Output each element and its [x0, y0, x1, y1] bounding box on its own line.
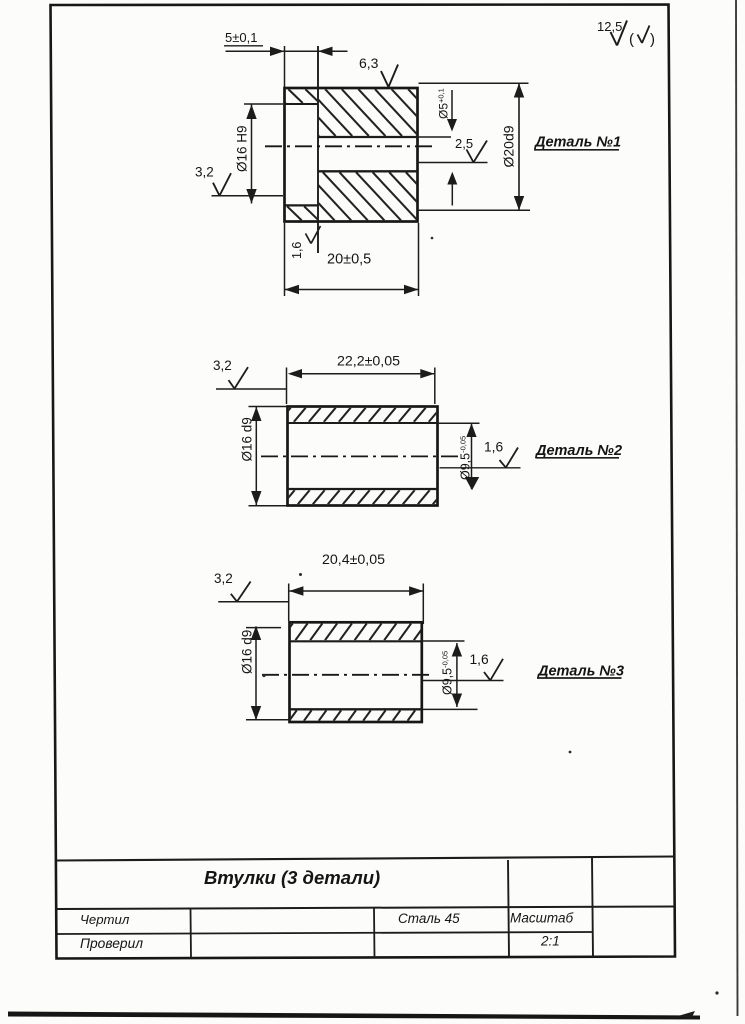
- dim Ø16d9 line (detail 3): [255, 627, 257, 720]
- roughness leader line 1,6 (detail 2): [440, 467, 521, 469]
- dim Ø20d9 line: [518, 83, 520, 210]
- svg-text:12,5: 12,5: [597, 19, 622, 34]
- detail 1 centerline: [265, 145, 436, 147]
- dim 22,2 left extension: [286, 368, 288, 405]
- roughness check 3,2 (detail 2): [229, 380, 235, 389]
- roughness leader line 3,2 (detail 2): [216, 388, 287, 390]
- dim Ø9,5 down arrow (detail 3): [452, 694, 462, 708]
- dim Ø16d9 top extension (detail 2): [249, 406, 287, 408]
- dim Ø16H9 top extension: [244, 103, 283, 105]
- detail 1 body outline (section): [285, 88, 418, 222]
- dim 20,4 left arrow: [289, 586, 303, 596]
- svg-text:20±0,5: 20±0,5: [327, 252, 371, 268]
- title block second horizontal line: [57, 907, 675, 910]
- scan artifact: arrow mark bottom right: [678, 1011, 695, 1019]
- svg-text:1,6: 1,6: [484, 440, 504, 455]
- dim Ø16d9 bottom extension (detail 3): [246, 719, 290, 721]
- label Деталь №3 underline: [537, 677, 622, 679]
- svg-text:Ø5+0,1: Ø5+0,1: [437, 88, 451, 119]
- svg-text:(: (: [629, 31, 634, 48]
- bore-bottom extension line (detail 1): [418, 162, 488, 164]
- svg-text:Деталь №3: Деталь №3: [536, 664, 624, 680]
- dim Ø16d9 up arrow (detail 2): [251, 407, 261, 421]
- title block vertical line x=190: [190, 909, 193, 959]
- detail 3 centerline: [262, 674, 433, 676]
- title block vertical line x=374: [373, 908, 376, 958]
- svg-text:1,6: 1,6: [290, 242, 304, 259]
- dim Ø16d9 line (detail 2): [255, 407, 257, 505]
- roughness leader line 1,6 (detail 3): [422, 680, 504, 682]
- svg-text:Ø16 d9: Ø16 d9: [240, 417, 255, 461]
- detail 1 bore bottom edge: [318, 170, 418, 172]
- dim Ø16H9 line: [251, 105, 253, 204]
- scan artifact: right page edge line: [736, 0, 738, 1016]
- title block vertical line x=592: [592, 858, 593, 958]
- dim Ø9,5 up arrow (detail 3): [452, 643, 462, 657]
- dim Ø9,5 line (detail 3): [456, 643, 458, 707]
- title block top line: [57, 857, 676, 861]
- scan speck near detail 1: [431, 237, 434, 240]
- dim Ø9,5 up arrow (detail 2): [466, 423, 476, 437]
- extension line part left edge up: [284, 46, 286, 87]
- detail 1 counterbore face / extension line x=318: [317, 46, 319, 253]
- dim Ø5 bore-top extension: [418, 136, 452, 138]
- detail 1 bore top edge: [318, 136, 418, 138]
- scan speck near detail 3 top: [299, 573, 302, 576]
- drawing sheet border frame: [51, 5, 676, 959]
- svg-text:Деталь №1: Деталь №1: [533, 135, 621, 151]
- detail 2 body outline (section): [288, 407, 438, 506]
- dim 20±0,5 right arrow: [404, 285, 419, 294]
- svg-text:Проверил: Проверил: [80, 936, 143, 951]
- dim Ø16d9 top extension (detail 3): [246, 627, 281, 629]
- svg-text:Ø16 d9: Ø16 d9: [240, 630, 255, 674]
- dim Ø9,5 top extension (detail 2): [438, 422, 480, 424]
- svg-text:3,2: 3,2: [195, 165, 214, 180]
- dim Ø5 upper leader line: [451, 90, 453, 120]
- roughness check on bore (detail 1): [467, 150, 474, 163]
- dim Ø5 down arrow: [447, 119, 457, 132]
- detail 2 centerline: [261, 455, 458, 457]
- svg-text:1,6: 1,6: [470, 652, 490, 667]
- dim Ø9,5 bottom extension (detail 3): [422, 708, 478, 710]
- dim 20,4 left extension: [288, 584, 290, 622]
- svg-text:3,2: 3,2: [213, 358, 232, 373]
- svg-text:): ): [650, 31, 655, 48]
- dim Ø20d9 top extension: [419, 82, 529, 84]
- dim Ø20d9 up arrow: [514, 83, 524, 97]
- dim 22,2 right arrow: [420, 369, 434, 378]
- label Деталь №2 underline: [536, 457, 620, 459]
- roughness check 3,2 (detail 1): [213, 183, 220, 196]
- dim 20±0,5 left extension: [284, 223, 286, 296]
- svg-text:Масштаб: Масштаб: [510, 911, 573, 926]
- dim Ø5 lower leader line: [451, 185, 453, 206]
- dim line 22,2±0,05: [290, 373, 434, 375]
- detail 2 bore top edge: [288, 422, 438, 424]
- svg-text:Ø9,5-0,05: Ø9,5-0,05: [441, 651, 455, 695]
- svg-text:2:1: 2:1: [540, 934, 560, 949]
- dim line 5±0,1: [226, 50, 348, 52]
- svg-text:Сталь 45: Сталь 45: [398, 911, 460, 926]
- detail 3 bore bottom edge: [290, 708, 422, 710]
- detail 3 body outline (section): [290, 622, 422, 722]
- scan artifact: bottom page edge thick line: [8, 1012, 700, 1020]
- dim 20±0,5 left arrow: [285, 285, 300, 294]
- scan speck dot near title block: [715, 991, 718, 994]
- label Деталь №1 underline: [534, 149, 619, 151]
- dim Ø16d9 up arrow (detail 3): [251, 626, 261, 640]
- dim 20,4 right extension: [422, 584, 424, 625]
- dim 5±0,1 right arrow: [318, 47, 333, 56]
- svg-text:Втулки (3 детали): Втулки (3 детали): [204, 867, 380, 888]
- svg-text:Ø16 H9: Ø16 H9: [235, 125, 250, 172]
- detail 1 counterbore top edge: [285, 103, 319, 105]
- dim Ø9,5 down arrow (detail 2): [465, 477, 479, 490]
- scan speck near detail 3 left dim: [262, 674, 265, 677]
- svg-text:Чертил: Чертил: [80, 912, 130, 927]
- dim Ø16H9 down arrow: [246, 189, 256, 204]
- roughness check 6,3: [381, 71, 389, 87]
- dim Ø16d9 down arrow (detail 3): [251, 706, 261, 720]
- dim 22,2 left arrow: [288, 369, 302, 378]
- general roughness check symbol: [611, 32, 618, 46]
- roughness check 1,6 (detail 1): [306, 234, 312, 244]
- dim Ø9,5 line (detail 2): [471, 423, 473, 489]
- svg-text:Ø20d9: Ø20d9: [501, 125, 517, 167]
- svg-text:Ø9,5-0,05: Ø9,5-0,05: [459, 436, 473, 480]
- svg-text:5±0,1: 5±0,1: [225, 30, 257, 45]
- dim 20,4 right arrow: [409, 586, 423, 596]
- scan speck below detail 3: [569, 751, 572, 754]
- dim Ø16d9 down arrow (detail 2): [251, 491, 261, 505]
- dim 20±0,5 right extension: [418, 223, 420, 296]
- svg-text:Деталь №2: Деталь №2: [534, 443, 622, 459]
- dim line 20,4±0,05: [290, 590, 424, 592]
- title block vertical line x=508: [508, 860, 509, 958]
- svg-text:20,4±0,05: 20,4±0,05: [322, 552, 385, 568]
- detail 2 bore bottom edge: [288, 488, 438, 490]
- dim Ø20d9 bottom extension: [418, 209, 531, 211]
- detail 1 counterbore bottom edge: [285, 204, 319, 206]
- detail 3 bore top edge: [290, 640, 422, 642]
- dim Ø16d9 bottom extension (detail 2): [249, 505, 287, 507]
- dim Ø9,5 top extension (detail 3): [422, 640, 465, 642]
- roughness leader line 3,2 (detail 3): [218, 601, 288, 603]
- svg-text:22,2±0,05: 22,2±0,05: [337, 354, 400, 370]
- svg-text:2,5: 2,5: [455, 136, 473, 151]
- dim Ø16H9 up arrow: [246, 105, 256, 120]
- svg-text:3,2: 3,2: [214, 571, 233, 586]
- dim Ø5 up arrow: [447, 172, 457, 185]
- dim 22,2 right extension: [434, 368, 436, 405]
- roughness check 1,6 (detail 3): [484, 672, 490, 680]
- roughness check 1,6 (detail 2): [500, 460, 506, 468]
- roughness check 3,2 (detail 3): [231, 594, 237, 602]
- title block third horizontal line: [57, 932, 593, 934]
- dim text 5±0,1 underline: [224, 45, 263, 47]
- dim Ø16H9 bottom extension: [212, 195, 284, 197]
- dim 5±0,1 left arrow: [270, 47, 285, 56]
- dim line 20±0,5: [285, 289, 419, 291]
- dim Ø20d9 down arrow: [514, 196, 524, 210]
- svg-text:6,3: 6,3: [359, 55, 379, 71]
